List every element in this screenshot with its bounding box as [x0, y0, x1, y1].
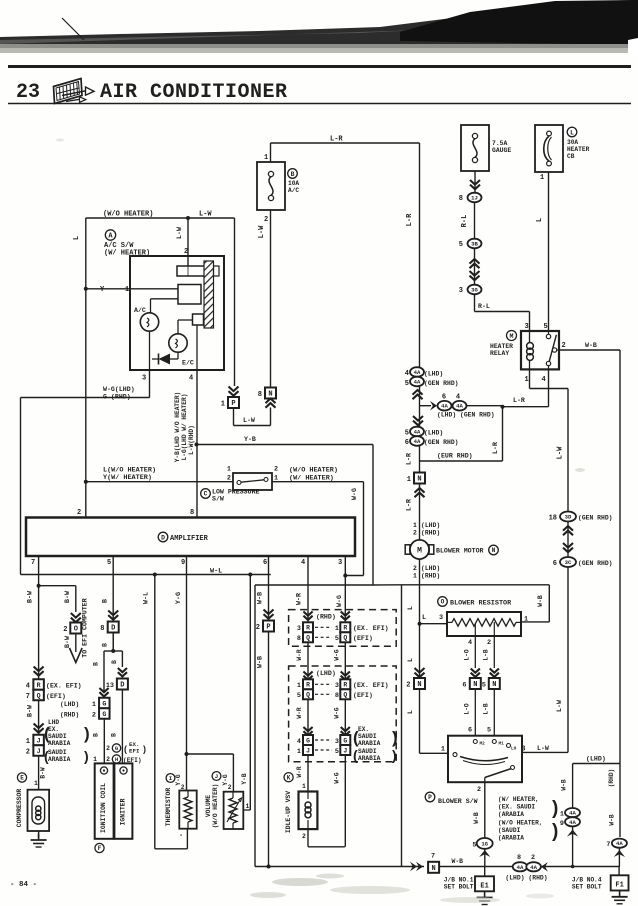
svg-text:R: R — [343, 682, 347, 689]
svg-text:(RHD): (RHD) — [60, 712, 79, 719]
svg-text:5: 5 — [335, 748, 339, 756]
svg-text:F1: F1 — [615, 882, 623, 890]
svg-text:1: 1 — [297, 682, 301, 690]
svg-text:4A: 4A — [569, 810, 576, 817]
heater relay pin labels 3 5 2 1 4 — [525, 323, 566, 384]
svg-text:3: 3 — [459, 287, 463, 295]
wire lamp1 to pin 3 — [149, 331, 151, 370]
svg-text:1: 1 — [441, 746, 445, 754]
header title AIR CONDITIONER — [100, 81, 288, 104]
svg-text:B-W: B-W — [27, 705, 34, 717]
svg-text:(LHD): (LHD) — [424, 430, 443, 437]
svg-text:ARABIA: ARABIA — [48, 740, 71, 747]
svg-text:7.5A: 7.5A — [492, 140, 508, 147]
svg-text:7: 7 — [31, 559, 35, 567]
svg-text:Y: Y — [100, 286, 105, 294]
svg-text:3: 3 — [297, 625, 301, 633]
svg-text:1: 1 — [560, 811, 564, 819]
svg-text:(LHD): (LHD) — [421, 565, 440, 572]
svg-text:J: J — [343, 747, 347, 754]
arrows below 1G — [479, 849, 490, 867]
arrows between 3D and 3C — [563, 522, 573, 558]
svg-text:(RHD): (RHD) — [421, 573, 440, 580]
header section number 23 — [16, 81, 40, 104]
svg-text:SAUDI: SAUDI — [358, 748, 377, 755]
svg-text:(LHD): (LHD) — [421, 522, 440, 529]
svg-text:BLOWER S/W: BLOWER S/W — [438, 798, 478, 805]
blower switch P box — [448, 736, 522, 783]
svg-text:5: 5 — [107, 559, 111, 567]
svg-text:2: 2 — [264, 216, 268, 224]
bracket labels W/O HEATER SAUDI ARABIA — [498, 820, 558, 843]
svg-text:G: G — [343, 737, 347, 744]
connector 13 D — [106, 679, 128, 691]
scan smudges bottom — [56, 139, 585, 904]
svg-text:N: N — [417, 681, 421, 689]
wire W-B bottom rail — [255, 865, 619, 869]
J/B NO.1 SET BOLT label — [444, 877, 474, 891]
svg-text:Q: Q — [306, 692, 310, 699]
svg-text:Y-B: Y-B — [244, 436, 256, 443]
wire W-G LHD / G RHD from pin 3 to compressor line — [21, 370, 150, 575]
svg-text:LOW PRESSURE: LOW PRESSURE — [212, 489, 260, 496]
svg-text:P: P — [231, 400, 235, 408]
small contact square in A/C switch — [178, 314, 204, 334]
connector 5 1G — [472, 838, 492, 849]
svg-text:2: 2 — [227, 475, 231, 483]
svg-text:2: 2 — [92, 712, 96, 720]
svg-text:W-B: W-B — [452, 858, 464, 865]
svg-text:HEATER: HEATER — [490, 343, 513, 350]
svg-text:B: B — [93, 733, 100, 737]
svg-text:(W/ HEATER,: (W/ HEATER, — [498, 796, 539, 803]
svg-text:4A: 4A — [569, 819, 576, 826]
svg-text:1: 1 — [34, 780, 38, 787]
svg-text:IGNITER: IGNITER — [120, 798, 127, 825]
thermistor minus label — [179, 832, 183, 840]
svg-text:(GEN RHD): (GEN RHD) — [578, 560, 613, 567]
svg-text:O: O — [74, 626, 78, 634]
header rule top — [8, 65, 631, 68]
connector 4 4A LHD / 5 4A GEN RHD (upper pair) — [405, 367, 459, 388]
wire W-L vertical to thermistor return — [143, 575, 188, 849]
igniter pin labels 2 G EX EFI / 2 H EFI — [106, 741, 146, 764]
svg-text:L: L — [422, 614, 426, 622]
wire LHD branch from L-W line to W-B drop — [561, 756, 621, 809]
A/C switch hatched slider bar — [204, 261, 219, 328]
svg-text:R: R — [306, 682, 310, 689]
svg-text:1: 1 — [540, 174, 544, 182]
svg-text:SAUDI: SAUDI — [358, 733, 377, 740]
svg-text:2: 2 — [26, 749, 30, 757]
svg-text:5: 5 — [487, 727, 491, 735]
svg-text:1: 1 — [335, 625, 339, 633]
wire L-W loop connecting P and N — [234, 408, 271, 426]
bracket labels W/ HEATER EX SAUDI ARABIA — [498, 796, 558, 819]
svg-text:4A: 4A — [530, 864, 537, 871]
wire L-W top of A/C switch to connector P drop — [86, 211, 235, 387]
dashed box RHD connector group — [289, 610, 397, 647]
svg-text:6: 6 — [462, 682, 466, 690]
svg-text:HEATER: HEATER — [567, 146, 590, 153]
svg-text:1: 1 — [221, 401, 225, 409]
svg-text:(: ( — [353, 728, 359, 747]
svg-text:(LHD) (GEN RHD): (LHD) (GEN RHD) — [437, 412, 495, 419]
compressor designator E label — [16, 773, 27, 827]
svg-text:(GEN RHD): (GEN RHD) — [424, 380, 459, 387]
idle-up VSV K — [299, 783, 318, 840]
svg-text:Y-B(LHD W/O HEATER): Y-B(LHD W/O HEATER) — [174, 392, 181, 463]
arrows down to connector D13 — [118, 668, 127, 676]
arrows up below connector N — [266, 399, 276, 408]
svg-text:A/C: A/C — [288, 187, 299, 194]
svg-text:L-W: L-W — [537, 745, 549, 752]
heater relay M box — [521, 331, 559, 369]
wire labels W-R W-G inside LHD box — [296, 707, 341, 718]
junction LHD branch to bottom rail — [571, 865, 575, 869]
svg-text:5: 5 — [459, 241, 463, 249]
page number — [10, 881, 37, 889]
svg-text:G: G — [306, 737, 310, 744]
svg-text:L-O: L-O — [464, 649, 471, 660]
idle-up VSV designator K — [284, 773, 293, 833]
LHD connectors 1R-3R 5Q-8Q — [297, 679, 389, 700]
svg-text:COMPRESSOR: COMPRESSOR — [16, 789, 23, 828]
svg-text:W-R: W-R — [296, 707, 303, 718]
svg-text:R-L: R-L — [478, 303, 490, 310]
svg-text:1: 1 — [413, 522, 417, 529]
svg-text:8: 8 — [459, 195, 463, 203]
svg-text:2: 2 — [184, 248, 188, 256]
wire W-B from blower switch pin 2 to 1G — [473, 782, 485, 838]
connector pair 4A 4A on EUR RHD branch — [437, 401, 503, 419]
label W-B on right wire — [609, 814, 616, 825]
wires L-O L-B to blower switch — [464, 689, 495, 736]
svg-text:L: L — [536, 218, 544, 222]
svg-text:L-G(LHD W/ HEATER): L-G(LHD W/ HEATER) — [181, 394, 188, 461]
svg-text:8: 8 — [297, 635, 301, 643]
arrows into RHD box — [303, 612, 350, 620]
wires L-O L-B from resistor to N connectors — [464, 636, 495, 668]
svg-text:L-W: L-W — [258, 225, 266, 238]
svg-text:W-L: W-L — [210, 568, 222, 576]
svg-text:2: 2 — [256, 624, 260, 632]
blower resistor box — [447, 612, 521, 636]
label A/C inside switch — [134, 307, 146, 314]
wire W-G from low pressure switch pin 1 — [272, 482, 364, 578]
wire from mid contact to A/C lamp — [151, 299, 179, 313]
blower resistor O designator — [438, 597, 512, 608]
svg-text:L-W: L-W — [176, 227, 183, 239]
svg-text:2: 2 — [413, 530, 417, 537]
svg-text:E/C: E/C — [182, 360, 194, 367]
svg-text:Y-B: Y-B — [241, 773, 248, 784]
svg-text:5: 5 — [405, 430, 409, 438]
svg-text:(GEN RHD): (GEN RHD) — [578, 515, 613, 522]
svg-text:D: D — [161, 534, 165, 541]
EUR RHD branch loop — [420, 405, 505, 461]
svg-text:J: J — [215, 773, 218, 780]
svg-text:M2: M2 — [480, 742, 486, 747]
svg-text:W-G: W-G — [351, 488, 358, 500]
svg-text:GAUGE: GAUGE — [492, 147, 511, 154]
svg-text:23: 23 — [16, 81, 40, 104]
svg-text:(W/O HEATER,: (W/O HEATER, — [498, 820, 543, 827]
svg-text:E: E — [20, 775, 24, 782]
svg-text:2: 2 — [477, 786, 481, 794]
wire Y-B horizontal top of blower area — [255, 584, 402, 586]
Y-G branch to volume resistor — [187, 754, 234, 792]
J/B NO.4 SET BOLT label — [572, 877, 602, 891]
B branch right to igniter via D13 — [111, 651, 122, 667]
svg-text:CB: CB — [567, 153, 575, 160]
svg-text:4: 4 — [26, 683, 30, 691]
svg-text:G: G — [102, 711, 106, 718]
ground point E1 — [475, 867, 494, 905]
svg-text:(EX. EFI): (EX. EFI) — [353, 682, 389, 689]
svg-text:M1: M1 — [499, 742, 505, 747]
svg-text:7: 7 — [26, 693, 30, 701]
svg-text:TO EFI COMPUTER: TO EFI COMPUTER — [82, 598, 89, 657]
svg-text:LO: LO — [511, 747, 517, 752]
svg-text:(EX. SAUDI: (EX. SAUDI — [498, 804, 535, 811]
svg-text:4A: 4A — [414, 429, 421, 436]
wire ring left side vertical — [254, 585, 256, 867]
low pressure switch pin labels — [227, 466, 338, 483]
svg-text:6: 6 — [405, 439, 409, 447]
svg-text:1: 1 — [524, 616, 528, 624]
svg-text:(EX. EFI): (EX. EFI) — [353, 625, 389, 632]
svg-text:(EFI): (EFI) — [353, 635, 373, 642]
wire W-R from amplifier pin 4 down — [296, 556, 309, 792]
svg-text:BLOWER RESISTOR: BLOWER RESISTOR — [450, 600, 512, 608]
svg-text:8: 8 — [517, 854, 521, 862]
svg-text:Q: Q — [343, 692, 347, 699]
A/C switch inner box — [130, 256, 224, 370]
svg-text:C: C — [204, 491, 208, 498]
svg-text:W-B: W-B — [561, 779, 568, 790]
wire W-L horizontal below amplifier — [21, 568, 271, 577]
svg-text:J: J — [37, 748, 41, 755]
svg-text:W-R: W-R — [296, 593, 303, 605]
svg-text:1: 1 — [227, 466, 231, 474]
svg-text:18: 18 — [549, 515, 557, 523]
svg-text:L-R: L-R — [406, 453, 413, 465]
svg-text:J: J — [37, 737, 41, 744]
arrows into LHD box — [303, 672, 350, 680]
svg-text:A/C: A/C — [134, 307, 146, 314]
wire labels W-R W-G below LHD box — [296, 766, 341, 783]
svg-text:N: N — [473, 681, 477, 689]
svg-text:SET BOLT: SET BOLT — [444, 884, 474, 891]
svg-text:M: M — [417, 547, 422, 556]
svg-text:10A: 10A — [288, 180, 299, 187]
svg-text:5: 5 — [544, 323, 548, 331]
svg-text:4: 4 — [301, 559, 305, 567]
svg-text:2: 2 — [228, 784, 232, 791]
svg-text:4: 4 — [189, 375, 193, 383]
volume resistor box W/O HEATER — [224, 792, 244, 829]
bracket labels EX SAUDI ARABIA / SAUDI ARABIA — [353, 726, 398, 763]
heater relay designator M — [490, 331, 517, 358]
svg-text:6: 6 — [263, 559, 267, 567]
svg-text:): ) — [552, 821, 558, 842]
svg-text:SAUDI: SAUDI — [48, 749, 67, 756]
connector 2 P — [256, 621, 274, 633]
svg-text:L-R: L-R — [513, 397, 525, 404]
svg-text:2: 2 — [63, 626, 67, 634]
wire W-B top of blower resistor — [402, 585, 550, 622]
svg-text:4A: 4A — [414, 379, 421, 386]
svg-text:2: 2 — [406, 682, 410, 690]
svg-text:P: P — [266, 624, 270, 632]
connector 8 1J — [459, 193, 482, 203]
svg-text:SET BOLT: SET BOLT — [572, 884, 602, 891]
thermistor designator — [165, 774, 175, 827]
svg-text:B: B — [291, 171, 295, 178]
wire R-L from 3G to heater relay pin 3 — [475, 295, 530, 332]
connector 2 O to EFI computer — [63, 623, 81, 635]
svg-text:(SAUDI: (SAUDI — [498, 827, 521, 834]
svg-text:3: 3 — [335, 738, 339, 746]
wire Y-B horizontal — [195, 436, 374, 585]
svg-text:W-B: W-B — [609, 814, 616, 825]
svg-text:B: B — [102, 599, 109, 603]
svg-text:(GEN RHD): (GEN RHD) — [424, 439, 459, 446]
svg-text:8: 8 — [258, 391, 262, 399]
wire L-R from relay pin 4 down to junction row — [503, 369, 549, 406]
svg-text:4A: 4A — [517, 864, 524, 871]
svg-text:(W/O HEATER): (W/O HEATER) — [103, 211, 153, 219]
svg-text:L: L — [407, 606, 414, 610]
svg-text:(: ( — [44, 724, 50, 743]
connector 1 J / 2 J SAUDI ARABIA — [26, 735, 44, 757]
svg-text:(EUR RHD): (EUR RHD) — [437, 453, 473, 460]
arrows below 4A pair — [567, 827, 578, 867]
svg-text:8: 8 — [100, 625, 104, 633]
connector pair 8 4A 2 4A LHD RHD — [505, 854, 548, 881]
B branch left to ignition coil via G connectors — [93, 651, 114, 692]
svg-text:3B: 3B — [471, 241, 478, 248]
A/C switch mid contact box — [178, 285, 201, 305]
arrows down to connector P2 — [264, 610, 274, 619]
connector 7 N bottom — [428, 862, 439, 873]
svg-text:1: 1 — [302, 783, 306, 790]
svg-text:W-G: W-G — [336, 595, 343, 607]
svg-text:): ) — [392, 728, 398, 747]
svg-text:4A: 4A — [414, 369, 421, 376]
svg-text:F: F — [98, 845, 102, 852]
svg-text:(W/O HEATER): (W/O HEATER) — [289, 467, 338, 475]
svg-text:2: 2 — [531, 854, 535, 862]
svg-text:5: 5 — [335, 635, 339, 643]
wire from VSV pin 2 looping to W-G column — [308, 829, 345, 847]
arrows and connector 2 N on blower motor wire — [406, 668, 425, 690]
svg-text:R-L: R-L — [461, 215, 469, 228]
connector 8 D — [100, 622, 118, 634]
svg-text:-: - — [179, 832, 183, 840]
heater relay switch contacts — [546, 332, 559, 369]
svg-text:Q: Q — [343, 635, 347, 642]
svg-text:H: H — [115, 756, 118, 763]
svg-text:(ARABIA: (ARABIA — [498, 835, 524, 842]
svg-text:ARABIA: ARABIA — [358, 755, 381, 762]
connector 1 G / 2 G — [60, 698, 110, 720]
blower switch pin 1 label — [441, 746, 445, 754]
wire W-G from amplifier pin 3 down — [336, 556, 345, 847]
svg-text:(ARABIA: (ARABIA — [498, 811, 524, 818]
connector 3 3G — [459, 285, 482, 295]
svg-text:4A: 4A — [456, 403, 463, 410]
svg-text:1: 1 — [297, 748, 301, 756]
svg-text:3: 3 — [338, 559, 342, 567]
connector 5 4A LHD / 6 4A GEN RHD (lower pair) — [405, 427, 459, 447]
compressor E — [28, 780, 50, 831]
svg-text:3D: 3D — [565, 514, 572, 521]
wire from gauge fuse down to connector 1J — [470, 171, 480, 194]
svg-text:D: D — [111, 625, 115, 633]
arrows down to connector P — [229, 387, 239, 396]
svg-text:G (RHD): G (RHD) — [103, 394, 131, 401]
wire W-B from relay pin 2 to right side drop — [559, 342, 620, 837]
wire L-W from 3C down to blower switch pin 3 — [521, 567, 568, 754]
svg-text:G: G — [102, 700, 106, 707]
svg-text:B: B — [111, 660, 118, 664]
svg-text:(LHD): (LHD) — [60, 701, 79, 708]
thermistor box — [179, 791, 196, 829]
arrows up into 4A pair — [413, 390, 423, 399]
svg-text:1G: 1G — [481, 840, 488, 847]
wire Y-G from amplifier pin 9 — [175, 556, 189, 791]
wire labels W-R W-G between dashed boxes — [296, 649, 341, 660]
svg-text:VOLUME: VOLUME — [205, 795, 212, 818]
svg-text:J/B NO.1: J/B NO.1 — [444, 877, 474, 884]
svg-text:W-B: W-B — [473, 812, 480, 824]
LHD connectors 4G-3G 1J-5J — [297, 735, 350, 756]
wire from small square to pin 4 — [196, 325, 198, 370]
A/C switch pin 3 and 4 labels — [142, 375, 193, 383]
arrows below 7 4A — [614, 848, 625, 867]
label L 30A HEATER CB — [567, 127, 590, 160]
svg-text:5: 5 — [472, 841, 476, 849]
connectors 6 N and 5 N — [462, 678, 499, 690]
svg-text:BLOWER MOTOR: BLOWER MOTOR — [436, 548, 484, 555]
compressor ground — [31, 831, 47, 847]
svg-text:2: 2 — [106, 756, 110, 763]
svg-text:2: 2 — [487, 639, 491, 647]
svg-text:W-R: W-R — [296, 766, 303, 777]
svg-text:- 84 -: - 84 - — [10, 881, 37, 889]
svg-text:W-B: W-B — [585, 342, 597, 349]
svg-text:1J: 1J — [471, 195, 478, 202]
junction of B wire branches — [102, 633, 116, 654]
connector 4 R EX. EFI / 7 Q EFI — [26, 679, 82, 701]
svg-text:1: 1 — [125, 286, 129, 294]
svg-text:L-R: L-R — [406, 499, 413, 511]
arrows into N connectors — [471, 669, 499, 677]
label RHD on right W-B wire — [608, 769, 615, 788]
blower switch internal contacts — [453, 740, 517, 783]
volume resistor pin 1 wire Y-B up to W-L line — [241, 575, 250, 811]
blower resistor pins 4 2 labels — [468, 639, 491, 647]
designator F for ignition coil and igniter — [95, 843, 104, 852]
svg-text:M: M — [510, 333, 514, 340]
svg-text:3C: 3C — [565, 559, 572, 566]
svg-text:W-B: W-B — [537, 595, 544, 607]
svg-text:N: N — [492, 681, 496, 689]
amplifier designator D label — [158, 532, 208, 543]
wire B-W from amplifier pin 7 to compressor — [27, 556, 47, 790]
